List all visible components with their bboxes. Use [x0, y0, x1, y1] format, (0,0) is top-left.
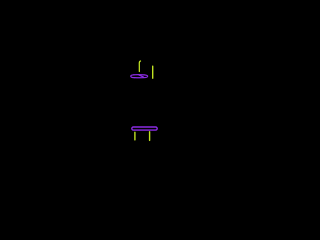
wire: lower-right yellow leg: [149, 132, 151, 141]
wire: upper-left yellow hooked line: [139, 61, 140, 72]
wire: upper-right yellow vertical line: [152, 66, 154, 78]
wire: lower-left yellow leg: [134, 132, 136, 140]
node A: upper purple sketchy ellipse: [131, 75, 148, 78]
node B: lower purple rounded rectangle (pill): [132, 127, 157, 130]
